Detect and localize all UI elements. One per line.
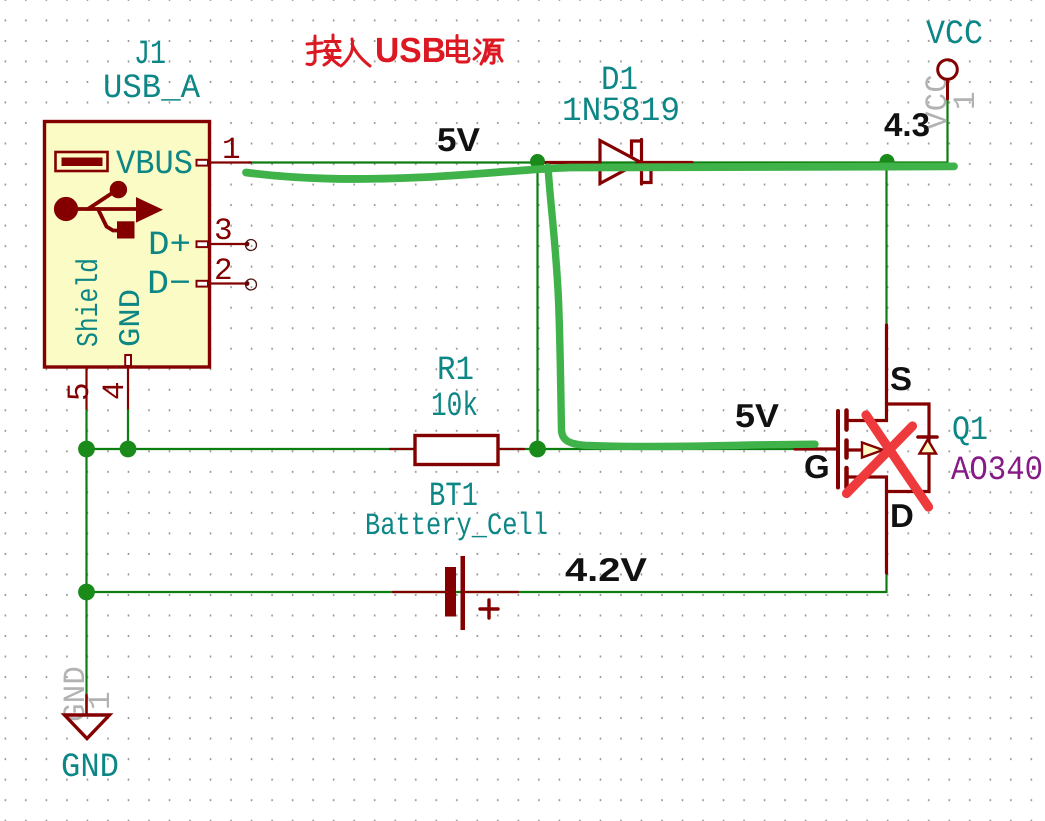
- pin 4 GND: [127, 367, 129, 409]
- note red title: hanzi DIAN (电): [448, 36, 470, 63]
- junction node 5V-Q1S: [880, 154, 895, 169]
- svg-text:USB_A: USB_A: [103, 70, 201, 108]
- svg-text:D−: D−: [147, 266, 191, 304]
- svg-text:GND: GND: [115, 289, 149, 347]
- junction node GND-battery: [78, 584, 95, 601]
- connector J1 body: [45, 122, 210, 368]
- wire J1 pin4 drop: [127, 409, 129, 450]
- svg-text:3: 3: [214, 214, 233, 249]
- junction node 5V-R1: [530, 154, 545, 169]
- svg-text:4.2V: 4.2V: [565, 551, 647, 588]
- USB receptacle icon: [56, 152, 108, 171]
- svg-text:1: 1: [84, 691, 119, 710]
- G pin: [795, 447, 836, 450]
- wire battery row y=592: [87, 573, 887, 592]
- wire from 5V net down to R1 right junction: [536, 163, 538, 450]
- marker highlighter branch down to gate: [548, 167, 815, 447]
- wire left vertical ground run: [85, 449, 87, 695]
- power symbol VCC: [938, 60, 958, 99]
- channel bars: [844, 411, 849, 430]
- resistor R1: [390, 448, 415, 450]
- svg-text:Q1: Q1: [952, 412, 988, 450]
- svg-text:GND: GND: [61, 749, 119, 787]
- svg-text:USB: USB: [375, 31, 446, 70]
- note red title: hanzi JIE (接): [307, 35, 340, 65]
- svg-text:AO340: AO340: [951, 452, 1043, 490]
- pin 2 D-: [210, 282, 247, 284]
- svg-text:G: G: [804, 448, 830, 485]
- note red title: hanzi YUAN (源): [474, 40, 503, 64]
- svg-text:10k: 10k: [431, 388, 478, 426]
- svg-text:1: 1: [222, 133, 241, 168]
- junction node R1-gate: [529, 441, 546, 458]
- wire VCC drop: [946, 99, 948, 163]
- wire gate row y=449: [87, 448, 796, 450]
- drain-gate middle stub with arrow: [847, 448, 887, 451]
- D pin: [885, 492, 888, 574]
- wire from 5V net down to Q1 source: [885, 163, 887, 326]
- svg-text:5V: 5V: [437, 121, 480, 158]
- junction node GND-pin4: [120, 441, 137, 458]
- svg-text:R1: R1: [437, 352, 474, 390]
- svg-text:1N5819: 1N5819: [562, 93, 680, 131]
- svg-text:D: D: [890, 497, 914, 534]
- svg-text:2: 2: [214, 254, 233, 289]
- junction node GND-pin5: [78, 441, 95, 458]
- source stub and outer loop: [847, 404, 930, 492]
- S pin: [885, 325, 888, 404]
- note red title: hanzi RU (入): [341, 39, 370, 66]
- ground symbol GND: [65, 695, 110, 739]
- battery BT1: [393, 591, 448, 593]
- svg-text:5: 5: [63, 382, 98, 401]
- svg-text:5V: 5V: [735, 397, 779, 434]
- diode D1 1N5819: [546, 140, 692, 185]
- svg-text:4: 4: [98, 381, 133, 400]
- transistor Q1 AO340 (P-MOSFET): [795, 325, 937, 573]
- svg-text:D+: D+: [148, 227, 191, 265]
- pin 5 Shield: [85, 367, 87, 409]
- wire J1 pin5 drop: [85, 409, 87, 450]
- svg-text:J1: J1: [134, 36, 166, 74]
- wire VBUS 5V net horizontal: [248, 161, 948, 163]
- marker highlighter along 5V wire: [246, 166, 954, 179]
- gate bar: [836, 411, 840, 488]
- pin 3 D+: [210, 243, 247, 245]
- svg-text:S: S: [890, 360, 912, 397]
- svg-text:VBUS: VBUS: [116, 146, 193, 184]
- svg-text:4.3: 4.3: [884, 106, 930, 143]
- svg-text:Battery_Cell: Battery_Cell: [365, 509, 548, 544]
- svg-text:VCC: VCC: [926, 16, 983, 54]
- body diode: [918, 435, 937, 439]
- marker red X over Q1: [847, 415, 929, 507]
- svg-text:Shield: Shield: [73, 258, 107, 347]
- svg-text:1: 1: [949, 91, 984, 110]
- pin 1 VBUS: [210, 161, 252, 163]
- USB trident icon: [56, 183, 161, 238]
